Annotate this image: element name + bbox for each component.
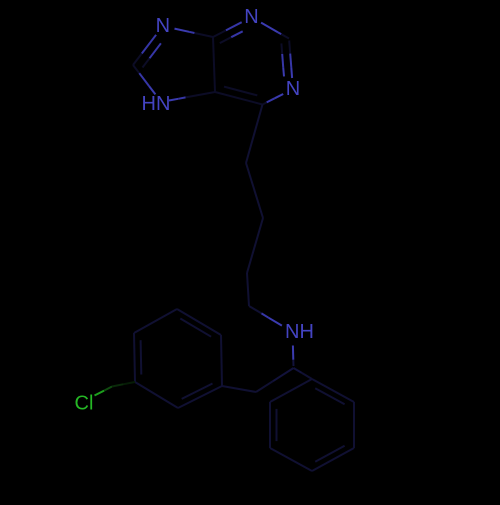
svg-text:HN: HN — [142, 93, 171, 115]
svg-text:N: N — [156, 15, 170, 37]
svg-text:Cl: Cl — [75, 393, 94, 415]
svg-text:N: N — [244, 6, 258, 28]
svg-text:NH: NH — [285, 321, 314, 343]
svg-text:N: N — [286, 78, 300, 100]
